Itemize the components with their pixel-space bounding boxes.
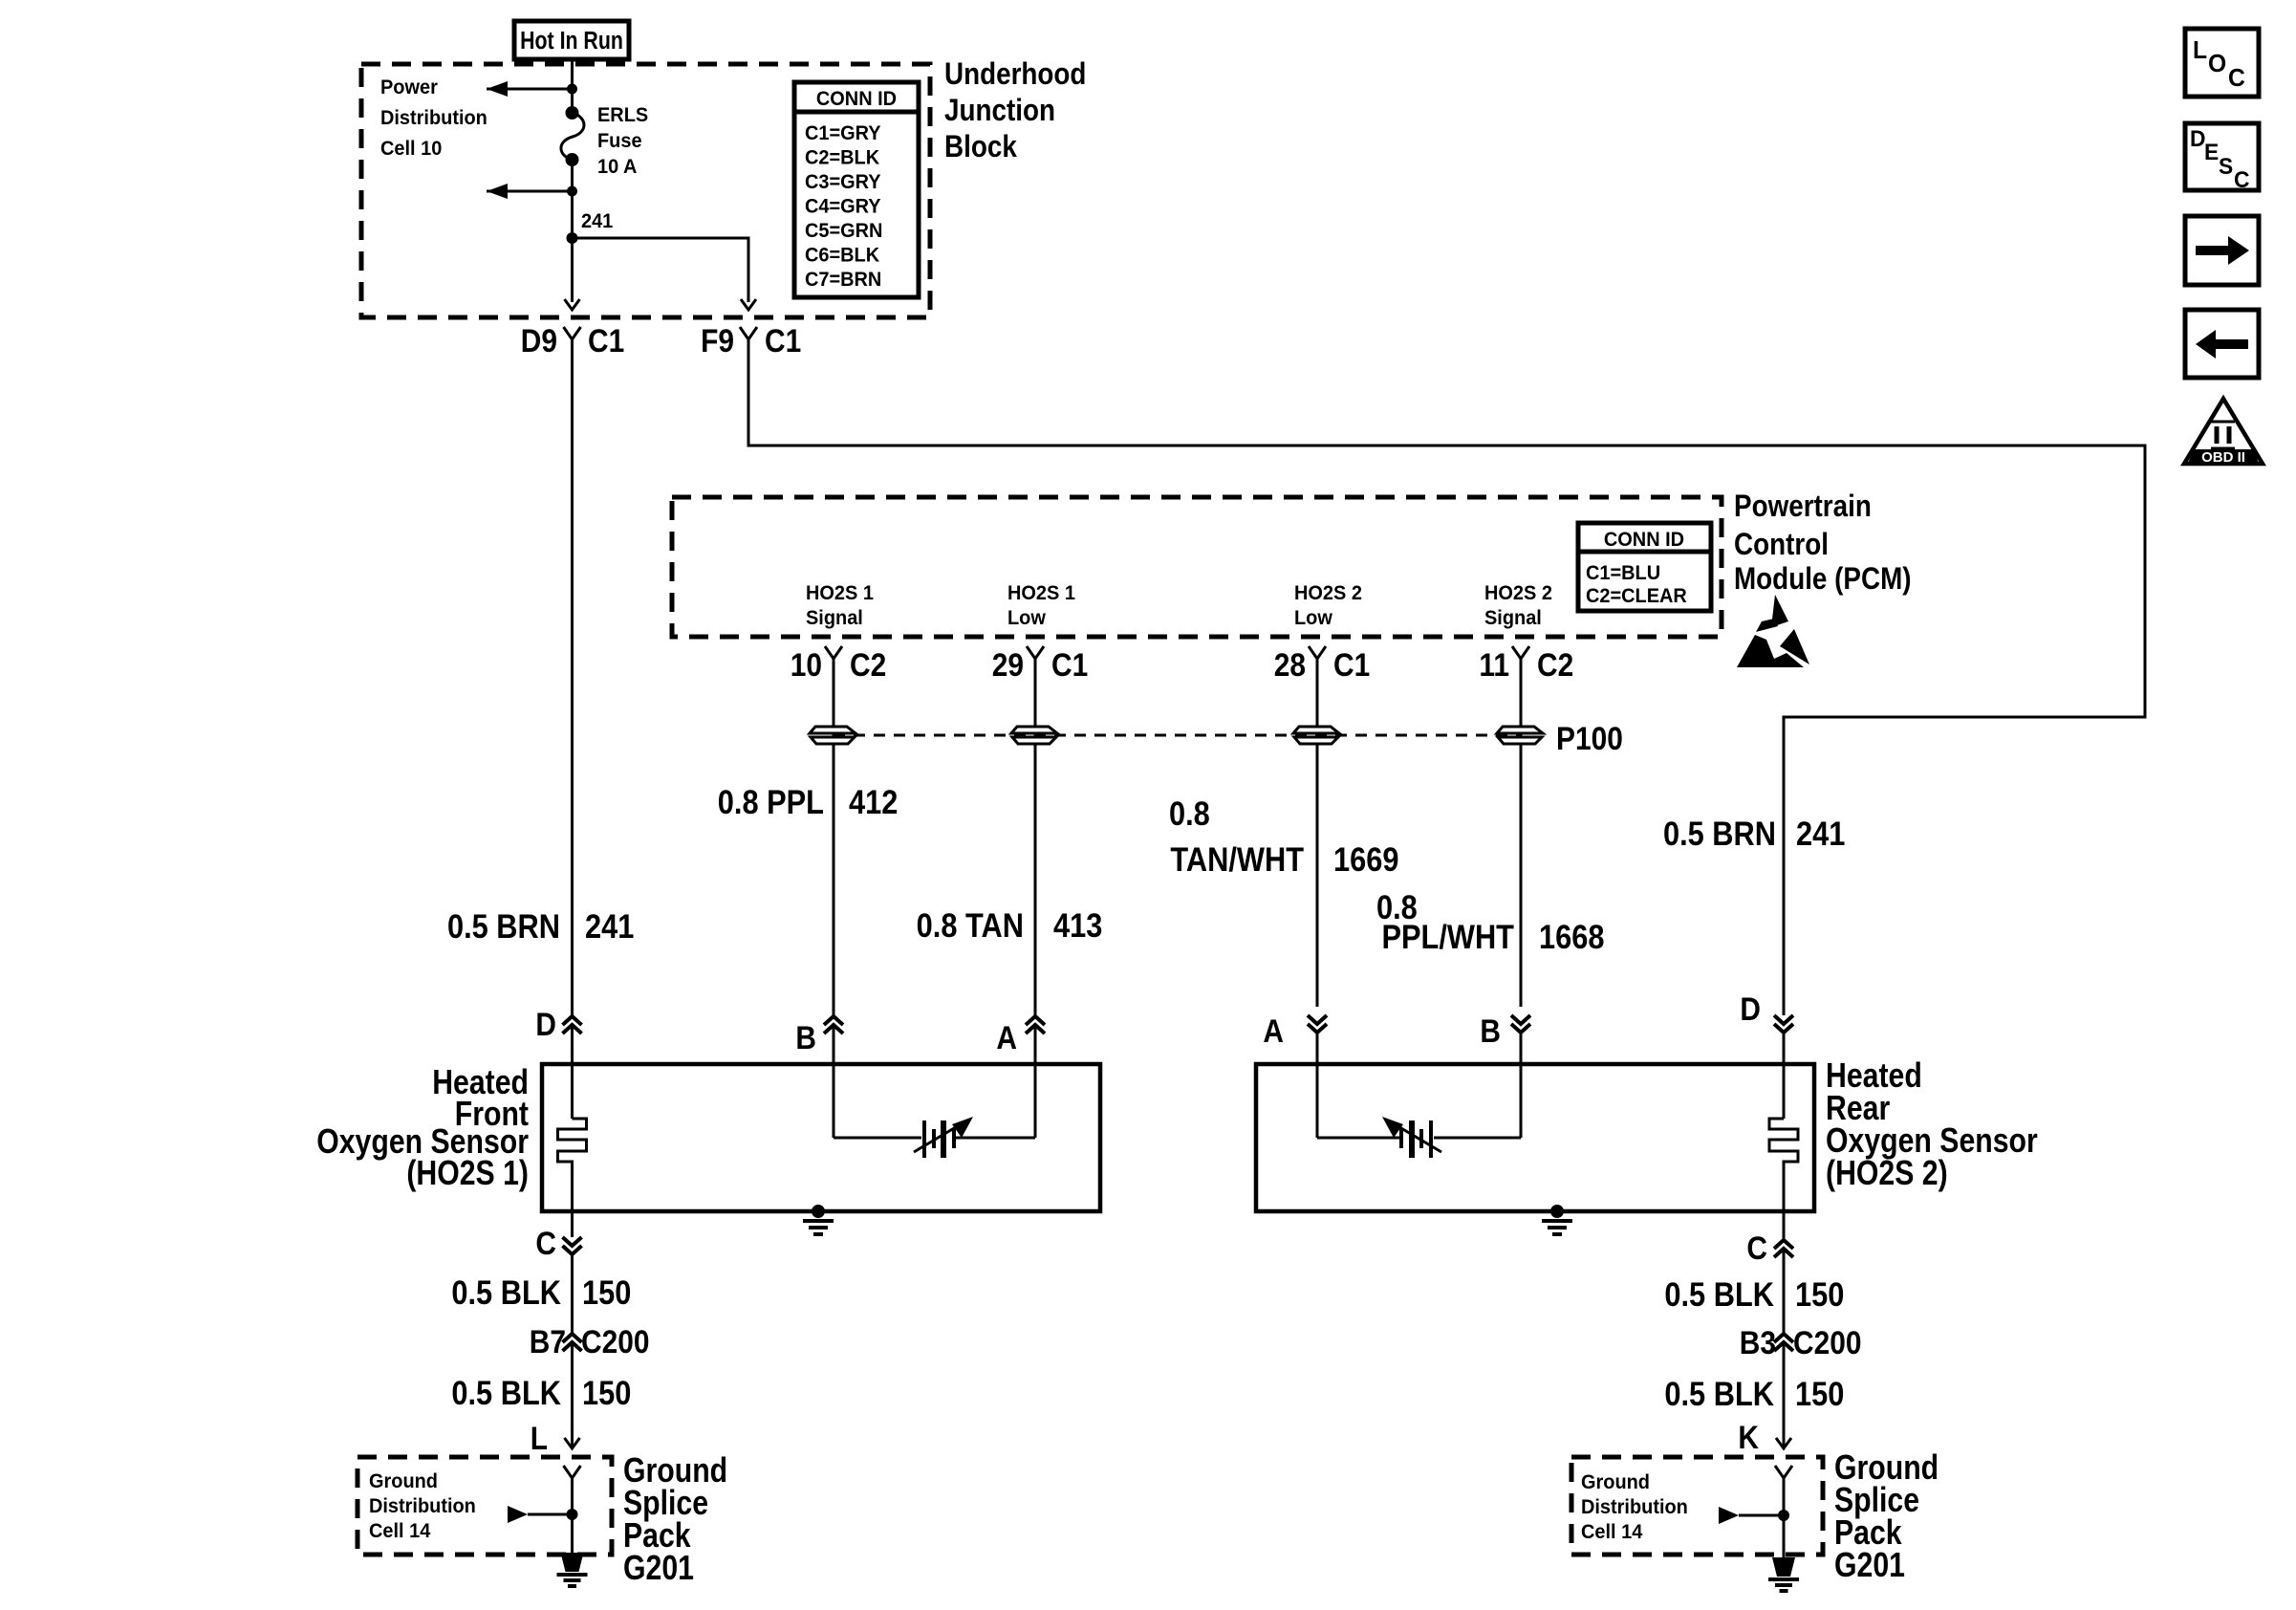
label 0.5 BLK 150 (rear lower)	[1664, 1375, 1844, 1412]
PCM pin 28 C1 connector Y	[1274, 646, 1371, 683]
svg-text:CONN ID: CONN ID	[1604, 529, 1684, 552]
svg-text:412: 412	[849, 783, 898, 820]
connector B7 C200	[530, 1323, 650, 1360]
label 0.5 BRN 241 (left)	[447, 907, 634, 945]
svg-text:Junction: Junction	[944, 94, 1055, 127]
label 0.5 BLK 150 (front upper)	[451, 1273, 631, 1311]
svg-text:Cell 14: Cell 14	[369, 1520, 431, 1543]
wire pin A to sensor cell (rear)	[1317, 1137, 1401, 1140]
svg-text:0.5 BLK: 0.5 BLK	[451, 1374, 561, 1411]
svg-text:K: K	[1738, 1419, 1759, 1455]
svg-text:Cell 10: Cell 10	[380, 138, 442, 161]
svg-text:HO2S 1: HO2S 1	[1007, 582, 1075, 605]
svg-text:0.8 TAN: 0.8 TAN	[917, 906, 1024, 944]
svg-text:C: C	[2234, 166, 2250, 192]
svg-text:Signal: Signal	[1484, 607, 1542, 630]
svg-text:150: 150	[1795, 1375, 1844, 1412]
svg-text:C7=BRN: C7=BRN	[805, 269, 881, 292]
svg-text:Hot In Run: Hot In Run	[520, 27, 623, 55]
OBD II symbol	[2184, 399, 2263, 466]
svg-text:C1: C1	[1333, 646, 1370, 683]
svg-text:C200: C200	[1793, 1324, 1862, 1360]
svg-text:(HO2S 1): (HO2S 1)	[406, 1155, 529, 1193]
svg-text:Control: Control	[1734, 528, 1829, 561]
svg-text:B3: B3	[1740, 1324, 1776, 1360]
svg-text:S: S	[2219, 153, 2233, 179]
svg-text:0.8 PPL: 0.8 PPL	[718, 783, 824, 820]
svg-text:C: C	[1746, 1229, 1767, 1266]
forward nav box	[2185, 216, 2259, 285]
ERLS Fuse 10 A label	[597, 104, 648, 179]
svg-text:Powertrain: Powertrain	[1734, 490, 1872, 523]
HO2S 2 Low pin label	[1294, 582, 1362, 630]
svg-text:0.5 BLK: 0.5 BLK	[451, 1273, 561, 1311]
svg-text:CONN ID: CONN ID	[816, 88, 897, 111]
wire rear C to C200	[1783, 1249, 1786, 1333]
svg-text:TAN/WHT: TAN/WHT	[1170, 840, 1304, 878]
PCM pin 10 C2 connector Y	[791, 646, 887, 683]
svg-text:C2=CLEAR: C2=CLEAR	[1586, 585, 1687, 608]
pin C rear	[1746, 1229, 1793, 1266]
svg-text:HO2S 2: HO2S 2	[1294, 582, 1362, 605]
svg-text:B: B	[795, 1019, 816, 1055]
Hot In Run fuse box label	[514, 21, 629, 59]
wire: 0.5 BRN 241 from D9 down to front sensor pin D	[571, 339, 574, 1015]
label 0.8 PPL 412	[718, 783, 899, 820]
wire: 0.5 BRN 241 from F9 around to rear sensor pin D	[748, 339, 2145, 1015]
pin A front	[996, 1016, 1045, 1055]
Power Distribution Cell 10 label	[380, 76, 487, 161]
svg-text:28: 28	[1274, 646, 1306, 683]
connector Y in splice pack (right)	[1775, 1466, 1792, 1478]
connector Y at F9	[740, 327, 757, 339]
splice on wire 1669	[1293, 727, 1339, 744]
svg-text:Ground: Ground	[1581, 1471, 1650, 1494]
svg-text:241: 241	[1796, 815, 1845, 852]
Ground Splice Pack G201 label (right)	[1834, 1449, 1939, 1585]
svg-text:C3=GRY: C3=GRY	[805, 171, 881, 194]
wire Y to ground (left)	[571, 1478, 574, 1553]
svg-text:Low: Low	[1294, 607, 1332, 630]
svg-text:(HO2S 2): (HO2S 2)	[1826, 1155, 1948, 1193]
svg-text:10: 10	[791, 646, 822, 683]
HO2S 2 Signal pin label	[1484, 582, 1552, 630]
sensor cell element front	[914, 1117, 973, 1158]
node: branch to F9	[567, 232, 578, 244]
label 0.8 TAN 413	[917, 906, 1103, 944]
arrow into D9	[565, 299, 580, 310]
svg-text:241: 241	[585, 907, 634, 945]
svg-text:10 A: 10 A	[597, 156, 638, 179]
splice on wire 412	[810, 727, 856, 744]
dashed splice tie line	[834, 734, 1521, 737]
svg-text:C1=GRY: C1=GRY	[805, 122, 881, 145]
wire C200 to splice pack (left)	[571, 1342, 574, 1448]
svg-text:C200: C200	[581, 1323, 650, 1360]
labels F9 C1	[701, 322, 801, 359]
wire front C to C200	[571, 1254, 574, 1333]
svg-text:413: 413	[1053, 906, 1102, 944]
wire sensor cell to pin B (rear)	[1434, 1137, 1521, 1140]
svg-text:C6=BLK: C6=BLK	[805, 244, 879, 267]
svg-text:OBD II: OBD II	[2201, 449, 2245, 466]
svg-text:D: D	[1740, 990, 1761, 1027]
svg-text:150: 150	[1795, 1275, 1844, 1313]
pin A rear	[1263, 1012, 1327, 1049]
svg-text:G201: G201	[623, 1550, 694, 1588]
svg-text:Power: Power	[380, 76, 438, 99]
label 0.5 BLK 150 (rear upper)	[1664, 1275, 1844, 1313]
svg-text:L: L	[2193, 36, 2207, 64]
svg-text:Block: Block	[944, 130, 1017, 163]
svg-text:150: 150	[582, 1273, 631, 1311]
fuse ERLS 10A	[561, 106, 584, 166]
svg-text:Low: Low	[1007, 607, 1046, 630]
LOC nav box	[2185, 29, 2259, 97]
Heated Rear Oxygen Sensor box	[1256, 1064, 1814, 1211]
pin D front	[535, 1006, 581, 1042]
wire sensor cell to pin A	[954, 1137, 1035, 1140]
heater element rear	[1769, 1119, 1798, 1211]
Heated Front Oxygen Sensor box	[542, 1064, 1100, 1211]
svg-text:D: D	[2190, 125, 2205, 151]
Ground Distribution Cell 14 label (right)	[1581, 1471, 1688, 1544]
svg-text:C2: C2	[850, 646, 886, 683]
label 0.5 BRN 241 (right)	[1663, 815, 1845, 852]
pin D rear	[1740, 990, 1793, 1033]
svg-text:C5=GRN: C5=GRN	[805, 220, 882, 243]
wire Y to ground (right)	[1783, 1478, 1786, 1557]
wire: HO2S1 signal 0.8 PPL 412	[833, 659, 835, 1015]
svg-text:B: B	[1480, 1012, 1501, 1049]
HO2S 1 Low pin label	[1007, 582, 1075, 630]
svg-text:F9: F9	[701, 322, 734, 359]
svg-text:Underhood: Underhood	[944, 57, 1086, 91]
svg-text:150: 150	[582, 1374, 631, 1411]
wire: HO2S2 low 0.8 TAN/WHT 1669	[1316, 659, 1319, 1007]
label 0.5 BLK 150 (front lower)	[451, 1374, 631, 1411]
wire stubs into sensor boxes	[571, 1025, 574, 1119]
pin B front	[795, 1016, 843, 1055]
back nav box	[2185, 310, 2259, 378]
svg-text:0.5 BRN: 0.5 BRN	[1663, 815, 1776, 852]
svg-text:1669: 1669	[1333, 840, 1398, 878]
svg-text:Distribution: Distribution	[1581, 1496, 1688, 1519]
svg-text:Module (PCM): Module (PCM)	[1734, 562, 1912, 596]
svg-text:Distribution: Distribution	[380, 107, 487, 130]
connector Y at D9	[564, 327, 581, 339]
svg-text:Distribution: Distribution	[369, 1495, 476, 1518]
svg-text:E: E	[2204, 139, 2219, 164]
Underhood Junction Block label	[944, 57, 1086, 163]
svg-text:0.5 BLK: 0.5 BLK	[1664, 1375, 1774, 1412]
svg-text:0.8: 0.8	[1169, 794, 1210, 832]
svg-text:PPL/WHT: PPL/WHT	[1381, 918, 1514, 955]
svg-text:HO2S 1: HO2S 1	[806, 582, 874, 605]
pin L	[531, 1420, 580, 1456]
Ground Distribution Cell 14 label (left)	[369, 1470, 476, 1543]
CONN ID table (Underhood Junction Block)	[794, 82, 919, 297]
svg-text:C: C	[535, 1225, 556, 1261]
pin K	[1738, 1419, 1791, 1455]
ground node in rear box	[1542, 1205, 1572, 1234]
ground G201 (right)	[1768, 1557, 1799, 1591]
Heated Rear Oxygen Sensor (HO2S 2) label	[1826, 1057, 2038, 1193]
svg-text:A: A	[1263, 1012, 1284, 1049]
svg-text:B7: B7	[530, 1323, 566, 1360]
PCM pin 11 C2 connector Y	[1479, 646, 1573, 683]
power branch arrow 2	[487, 184, 577, 199]
ground G201 (left)	[557, 1553, 588, 1586]
ground distribution feed arrow (left)	[508, 1506, 578, 1523]
svg-text:ERLS: ERLS	[597, 104, 648, 127]
pin C front	[535, 1225, 581, 1261]
heater element front	[558, 1119, 587, 1211]
svg-text:C1: C1	[1051, 646, 1088, 683]
Underhood Junction Block dashed box	[361, 64, 930, 317]
svg-text:241: 241	[581, 210, 613, 233]
wire: Hot In Run down to fuse	[571, 59, 574, 113]
Heated Front Oxygen Sensor (HO2S 1) label	[316, 1064, 529, 1193]
svg-text:O: O	[2208, 50, 2226, 77]
svg-text:0.5 BRN: 0.5 BRN	[447, 907, 560, 945]
svg-text:L: L	[531, 1420, 548, 1456]
svg-text:HO2S 2: HO2S 2	[1484, 582, 1552, 605]
svg-text:Fuse: Fuse	[597, 130, 642, 153]
svg-text:P100: P100	[1556, 720, 1623, 756]
svg-text:Ground: Ground	[369, 1470, 438, 1493]
connector Y in splice pack (left)	[564, 1466, 581, 1478]
wire: fuse down to D9	[571, 160, 574, 302]
wire: branch over to F9	[573, 238, 749, 302]
svg-text:Cell 14: Cell 14	[1581, 1521, 1643, 1544]
svg-text:C1: C1	[765, 322, 801, 359]
wire C200 to splice pack (right)	[1783, 1342, 1786, 1448]
DESC nav box	[2185, 123, 2259, 192]
arrow into F9	[741, 299, 756, 310]
wire: HO2S1 low 0.8 TAN 413	[1034, 659, 1037, 1015]
svg-text:C4=GRY: C4=GRY	[805, 195, 881, 218]
svg-text:C2=BLK: C2=BLK	[805, 146, 879, 169]
wire: HO2S2 signal 0.8 PPL/WHT 1668	[1520, 659, 1523, 1007]
Powertrain Control Module (PCM) label	[1734, 490, 1912, 596]
connector B3 C200	[1740, 1324, 1862, 1360]
CONN ID table (PCM)	[1578, 523, 1711, 611]
svg-text:29: 29	[992, 646, 1024, 683]
sensor cell element rear	[1382, 1117, 1441, 1158]
ESD sensitive device symbol	[1737, 595, 1809, 667]
wire below rear box	[1783, 1211, 1786, 1239]
pin B rear	[1480, 1012, 1530, 1049]
splice P100 on wire 1668	[1497, 727, 1543, 744]
svg-text:A: A	[996, 1019, 1017, 1055]
Powertrain Control Module dashed box	[672, 497, 1722, 637]
svg-text:C: C	[2228, 64, 2245, 92]
svg-text:C1=BLU: C1=BLU	[1586, 562, 1660, 585]
label 0.8 PPL/WHT 1668	[1376, 888, 1604, 955]
Ground Distribution dashed box (left)	[357, 1457, 612, 1555]
svg-text:1668: 1668	[1539, 918, 1604, 955]
splice on wire 413	[1011, 727, 1057, 744]
svg-text:C2: C2	[1537, 646, 1573, 683]
PCM pin 29 C1 connector Y	[992, 646, 1089, 683]
Ground Distribution dashed box (right)	[1571, 1457, 1823, 1555]
HO2S 1 Signal pin label	[806, 582, 874, 630]
svg-text:D: D	[535, 1006, 556, 1042]
svg-text:C1: C1	[588, 322, 624, 359]
svg-text:G201: G201	[1834, 1547, 1905, 1585]
power branch arrow 1	[487, 81, 577, 97]
wire below front box	[571, 1211, 574, 1237]
label 0.8 TAN/WHT 1669	[1169, 794, 1398, 878]
svg-text:Signal: Signal	[806, 607, 863, 630]
svg-text:11: 11	[1479, 646, 1509, 683]
svg-text:D9: D9	[521, 322, 557, 359]
ground node in front box	[803, 1205, 834, 1234]
wire pin B to sensor cell	[834, 1137, 921, 1140]
svg-text:0.5 BLK: 0.5 BLK	[1664, 1275, 1774, 1313]
labels D9 C1	[521, 322, 624, 359]
Ground Splice Pack G201 label (left)	[623, 1452, 727, 1588]
ground distribution feed arrow (right)	[1719, 1507, 1789, 1524]
